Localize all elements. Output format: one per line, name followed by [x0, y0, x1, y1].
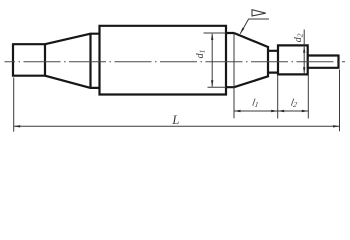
- d2 top arrowhead: [303, 47, 305, 53]
- left small cylinder (shaft end): [13, 43, 45, 76]
- surface flag symbol: [252, 10, 266, 16]
- L left extension line: [13, 78, 15, 132]
- d1 bottom arrowhead: [211, 80, 213, 87]
- l1 l2 shared extension line: [277, 75, 279, 119]
- left taper cone: [45, 33, 91, 89]
- step profile bottom thin line inside wheel: [208, 86, 227, 88]
- l1 right arrowhead: [271, 110, 278, 112]
- L right arrowhead: [333, 125, 340, 127]
- L dimension line: [14, 125, 340, 127]
- l2 right extension line: [307, 75, 309, 118]
- svg-text:L: L: [171, 113, 179, 127]
- leader line: [240, 19, 269, 34]
- right neck: [268, 51, 278, 73]
- l1 left arrowhead: [234, 110, 241, 112]
- d1 top arrowhead: [211, 33, 213, 40]
- d2 dimension line: [303, 30, 305, 74]
- collar d2 section: [278, 44, 308, 75]
- leader arrowhead: [240, 28, 244, 34]
- big cylinder body: [100, 25, 227, 96]
- l2 right arrowhead: [302, 110, 309, 112]
- right step cylinder: [226, 33, 234, 87]
- L right extension line: [339, 70, 341, 132]
- svg-text:d2: d2: [293, 33, 305, 42]
- l1 l2 dimension line: [234, 110, 308, 112]
- svg-text:d1: d1: [195, 50, 207, 59]
- right thin shaft: [308, 55, 339, 69]
- left neck: [91, 34, 100, 88]
- l2 left arrowhead: [278, 110, 285, 112]
- right taper cone: [234, 33, 268, 87]
- l1 left extension line: [233, 34, 235, 118]
- d2 bottom arrowhead: [303, 67, 305, 73]
- L left arrowhead: [14, 125, 21, 127]
- d1 dimension line: [211, 34, 213, 87]
- step profile top thin line inside wheel: [204, 32, 227, 34]
- centerline: [5, 61, 346, 63]
